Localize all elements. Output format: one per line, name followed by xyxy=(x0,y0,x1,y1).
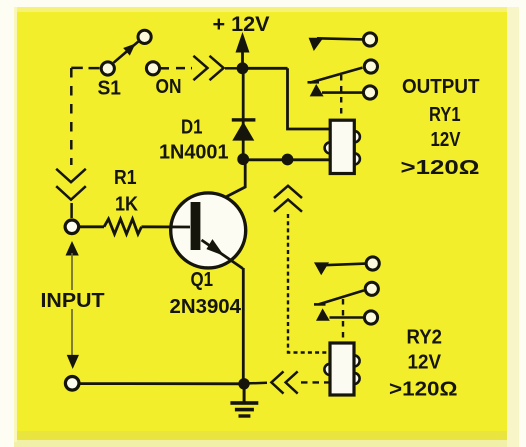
wire: ground rail xyxy=(79,382,244,385)
wire: +12V down through D1 to collector node xyxy=(242,68,245,159)
svg-text:OUTPUT: OUTPUT xyxy=(402,76,480,98)
ground xyxy=(230,384,258,418)
dashed ON arrow xyxy=(161,67,239,70)
svg-text:RY1: RY1 xyxy=(429,104,461,126)
svg-text:1N4001: 1N4001 xyxy=(159,142,229,164)
dashed armature link RY1 xyxy=(340,75,342,119)
svg-text:12V: 12V xyxy=(408,352,442,374)
resistor R1 xyxy=(80,219,190,234)
transistor Q1 xyxy=(171,193,246,269)
RY2 NO contact triangle xyxy=(314,262,329,275)
input terminal top xyxy=(65,220,79,234)
dashed wire RY2 tap down to RY2 coil xyxy=(288,214,329,353)
chevron connector pointing right xyxy=(193,56,223,80)
INPUT dimension arrows xyxy=(66,242,78,368)
RY1 NO contact triangle xyxy=(309,38,324,51)
svg-text:12V: 12V xyxy=(431,129,462,151)
svg-text:>120Ω: >120Ω xyxy=(401,157,480,179)
RY2 contact terminal bottom xyxy=(364,311,377,324)
svg-text:+ 12V: + 12V xyxy=(213,13,270,36)
svg-text:S1: S1 xyxy=(98,78,122,100)
RY1 contact terminal middle xyxy=(364,60,377,73)
wire: collector vertical into Q1 xyxy=(202,159,246,209)
+12V supply arrow xyxy=(236,34,249,69)
chevron connector pointing left (RY2 return) xyxy=(271,371,297,393)
relay RY2 contacts xyxy=(314,264,366,318)
junction diode/collector node xyxy=(237,153,249,165)
chevron connector pointing up to RY2 tap xyxy=(274,186,302,212)
relay RY2 coil xyxy=(324,343,359,395)
input terminal bottom xyxy=(65,377,79,391)
svg-text:Q1: Q1 xyxy=(191,269,214,291)
RY2 NC contact triangle xyxy=(316,308,330,320)
relay RY1 coil xyxy=(325,120,360,173)
junction +12V node xyxy=(237,62,249,74)
diode D1 xyxy=(232,118,256,140)
wire: emitter down to ground rail xyxy=(242,268,245,384)
svg-text:RY2: RY2 xyxy=(407,327,443,349)
ON terminal xyxy=(146,62,159,75)
RY1 contact terminal top xyxy=(363,33,376,46)
RY2 contact terminal top xyxy=(366,257,379,270)
switch S1 xyxy=(101,30,151,75)
junction RY2 tap node xyxy=(282,154,294,166)
relay RY1 contacts xyxy=(308,38,364,92)
RY1 contact terminal bottom xyxy=(363,86,376,99)
junction ground node xyxy=(238,378,249,389)
svg-text:D1: D1 xyxy=(181,117,203,139)
RY2 contact terminal middle xyxy=(365,282,378,295)
svg-text:ON: ON xyxy=(156,76,182,98)
wire: collector node to RY1 coil bottom feed xyxy=(243,158,331,161)
wire: drop to RY1 coil top feed xyxy=(288,68,332,129)
svg-text:2N3904: 2N3904 xyxy=(170,296,242,318)
wire: ground rail stub to RY2 return xyxy=(244,382,267,385)
svg-text:INPUT: INPUT xyxy=(41,290,105,312)
svg-text:>120Ω: >120Ω xyxy=(389,379,458,401)
dashed wire from S1 down to input xyxy=(71,68,99,218)
svg-text:R1: R1 xyxy=(114,167,137,189)
dashed wire RY2 return xyxy=(301,381,330,383)
RY1 NC contact triangle xyxy=(310,84,324,96)
svg-text:1K: 1K xyxy=(115,194,138,216)
chevron connector pointing down xyxy=(56,169,86,200)
dashed armature link RY2 xyxy=(342,299,344,342)
wire: +12V rail to RY1 drop xyxy=(243,67,288,70)
